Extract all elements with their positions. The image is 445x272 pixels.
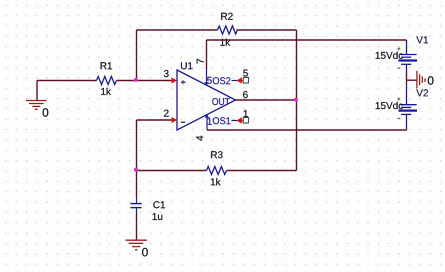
pin label OS1 bbox=[213, 117, 231, 124]
wire pin2 horizontal bbox=[137, 119, 173, 121]
label V1 bbox=[416, 36, 428, 43]
OS1 open terminal square bbox=[243, 118, 248, 124]
OS2 connection arrow bbox=[236, 77, 241, 83]
OS1 connection arrow bbox=[236, 117, 241, 123]
wire R3 left lead bbox=[137, 170, 207, 172]
junction node R1/R2 bbox=[134, 78, 138, 82]
label 0 (C1 ground) bbox=[142, 248, 148, 257]
pin label OS2 bbox=[213, 77, 231, 84]
V1 plus mark bbox=[397, 47, 400, 50]
wire R1 to op-amp pin3 bbox=[117, 80, 173, 82]
ground 0 (below C1) bbox=[126, 240, 147, 250]
pin 2 arrow bbox=[172, 117, 177, 123]
capacitor C1 bbox=[136, 197, 138, 203]
label V2 bbox=[416, 89, 428, 96]
label 1k (R3) bbox=[211, 178, 221, 185]
OS2 pin line bbox=[232, 80, 238, 82]
battery V2 bbox=[406, 80, 408, 83]
label 1k (R1) bbox=[101, 88, 111, 95]
ground 0 (middle right, rotated) bbox=[417, 71, 425, 89]
op-amp U1 triangle bbox=[177, 70, 236, 130]
wire R2 left lead bbox=[137, 29, 218, 31]
V2 minus mark bbox=[397, 117, 400, 119]
wire input from left ground to R1 bbox=[37, 80, 97, 82]
wire feedback riser to R2 bbox=[136, 30, 138, 81]
op-amp minus mark bbox=[181, 122, 185, 123]
label OUT bbox=[212, 98, 229, 105]
resistor R2 bbox=[218, 26, 238, 34]
OS2 open terminal square bbox=[243, 78, 248, 84]
junction node OUT bus bbox=[294, 98, 298, 102]
pin number 4 bbox=[196, 136, 203, 141]
label R1 bbox=[101, 62, 113, 69]
wire V+ rail top bbox=[207, 39, 407, 41]
label 15Vdc (V2) bbox=[376, 102, 403, 109]
wire R2 right vertical down to R3 bbox=[296, 30, 298, 171]
junction node R3/C1 bbox=[134, 168, 138, 172]
label R3 bbox=[211, 151, 223, 158]
label 15Vdc (V1) bbox=[376, 52, 403, 59]
wire ground drop bbox=[36, 81, 38, 101]
pin number 2 bbox=[164, 110, 169, 117]
wire pin2 vertical down bbox=[136, 120, 138, 171]
wire to middle ground bbox=[407, 79, 417, 81]
pin number 3 bbox=[164, 70, 169, 77]
op-amp plus mark bbox=[181, 80, 185, 84]
V1 minus mark bbox=[397, 67, 400, 69]
op-amp pin 4 stub bbox=[206, 115, 208, 130]
V2 plus mark bbox=[397, 98, 400, 101]
label 1k (R2) bbox=[220, 39, 230, 46]
inner pin number 1 bbox=[208, 118, 212, 125]
wire R3 right lead bbox=[227, 170, 297, 172]
label U1 bbox=[181, 62, 193, 69]
op-amp U1 pin 7 stub bbox=[206, 69, 208, 85]
wire C1 top lead bbox=[136, 171, 138, 198]
label C1 bbox=[153, 201, 165, 208]
battery V1 bbox=[406, 40, 408, 41]
label 0 (left ground) bbox=[43, 108, 49, 117]
inner pin number 5 bbox=[207, 77, 212, 84]
wire pin7 riser bbox=[206, 40, 208, 69]
resistor R3 bbox=[207, 167, 227, 175]
wire V- rail bottom bbox=[207, 129, 407, 131]
OS1 pin line bbox=[232, 120, 238, 122]
wire R2 right lead bbox=[237, 29, 297, 31]
label R2 bbox=[221, 13, 233, 20]
wire OUT to right bus bbox=[235, 99, 297, 101]
ground 0 (left) bbox=[26, 101, 47, 110]
pin 3 arrow bbox=[172, 78, 177, 84]
pin number 7 bbox=[197, 59, 204, 64]
pin number 5 bbox=[243, 70, 248, 77]
pin number 6 bbox=[243, 91, 248, 98]
label 0 (middle ground) bbox=[428, 76, 434, 85]
pin number 1 bbox=[244, 110, 248, 117]
label 1u bbox=[153, 213, 163, 220]
resistor R1 bbox=[97, 77, 117, 85]
wire C1 bottom lead bbox=[136, 212, 138, 239]
